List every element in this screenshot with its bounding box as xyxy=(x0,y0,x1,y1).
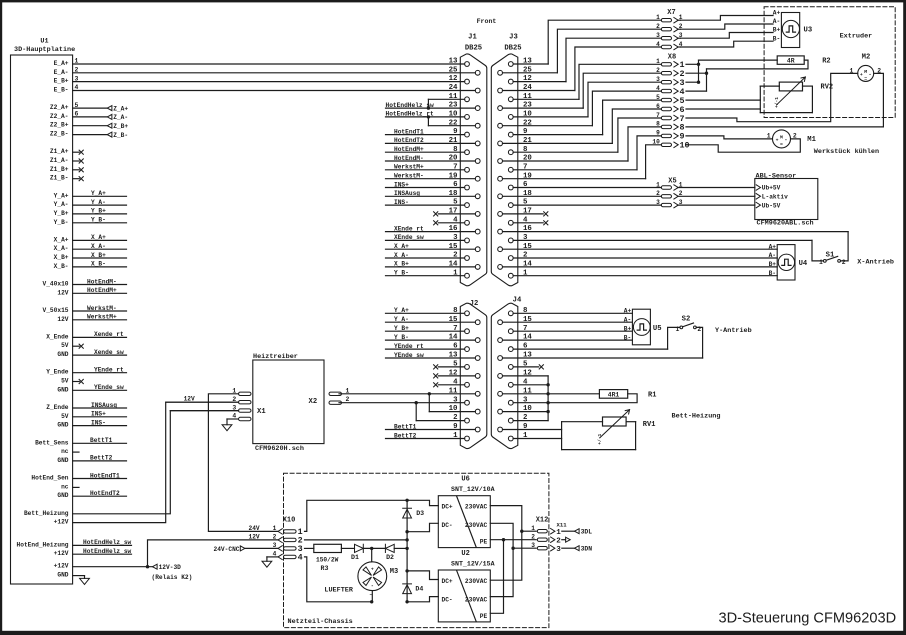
wire L to X12 pin1 xyxy=(522,530,536,532)
junction N xyxy=(511,547,514,550)
svg-text:B+: B+ xyxy=(769,261,777,268)
thermistor RV2 xyxy=(760,77,833,113)
wire X7 pin1 to U3 xyxy=(681,16,774,21)
stepper motor U3 xyxy=(773,10,812,48)
svg-text:X_A-: X_A- xyxy=(54,245,69,252)
net stub HotEndT1 at J1 xyxy=(386,128,465,135)
J2 pin circles and numbers xyxy=(449,307,480,441)
connector X8 pin6 xyxy=(656,103,684,115)
net stub Y_B+ xyxy=(73,208,127,215)
svg-text:+12V: +12V xyxy=(54,519,69,526)
svg-text:CFM9620ABL.sch: CFM9620ABL.sch xyxy=(757,220,814,228)
fan motor M3 xyxy=(358,562,398,591)
svg-text:+: + xyxy=(371,568,374,573)
svg-text:Z1_B-: Z1_B- xyxy=(50,175,69,182)
wire J3 to U4 phase 2 xyxy=(513,257,777,259)
connector X12 pin2 xyxy=(531,534,547,542)
connector X10 pin3 xyxy=(273,542,303,554)
wire J4 tie pins 12-2 xyxy=(503,376,549,421)
wire J2 pin2 xyxy=(416,420,464,422)
net stub WerkstM+ xyxy=(73,314,127,321)
svg-text:GND: GND xyxy=(57,492,68,499)
svg-text:=: = xyxy=(780,142,783,147)
wire X1 pin3 stub xyxy=(170,410,238,412)
wire X2 pin2 to J2 pin3 xyxy=(339,402,465,404)
svg-text:Y_A+: Y_A+ xyxy=(394,307,409,314)
wire J2 pin10 xyxy=(429,411,475,413)
label Bett-Heizung xyxy=(672,412,721,420)
svg-text:A-: A- xyxy=(624,316,631,323)
connector X8 pin9 xyxy=(656,130,684,142)
net stub YEnde_rt xyxy=(73,367,127,374)
wire 12V up to X10 pin2 xyxy=(148,540,278,567)
X1 pin 1 pad xyxy=(232,388,251,396)
svg-text:GND: GND xyxy=(57,422,68,429)
connector X11 pin1 xyxy=(551,529,562,537)
svg-text:1: 1 xyxy=(556,529,561,537)
power supply U2 SNT_12V/15A xyxy=(438,550,494,622)
svg-text:B+: B+ xyxy=(624,325,632,332)
net stub BettT1 at J2 xyxy=(386,423,476,430)
svg-text:HotEnd_Heizung: HotEnd_Heizung xyxy=(17,541,69,548)
no-connect J4 pin5 xyxy=(513,365,543,369)
svg-text:DC-: DC- xyxy=(442,596,453,603)
connector J2 DB15 body xyxy=(460,300,487,448)
svg-text:4: 4 xyxy=(298,553,303,563)
connector X12 pin3 xyxy=(531,542,547,550)
net stub Y_B+ at J2 xyxy=(386,325,465,332)
wire J3 pin16 to S1 pin2 xyxy=(503,232,849,261)
svg-text:12V-3D: 12V-3D xyxy=(159,564,182,571)
stepper motor U5 xyxy=(624,308,662,345)
net stub HotEndHelz_rt at J1 pin10 xyxy=(386,111,465,118)
junction X8 pin3 xyxy=(697,81,700,84)
svg-text:1: 1 xyxy=(273,525,277,532)
no-connect 5V stub xyxy=(73,379,84,383)
junction PE xyxy=(502,538,505,541)
svg-text:Y_A-: Y_A- xyxy=(394,316,409,323)
net stub WerkstM- at J1 xyxy=(386,173,476,180)
svg-text:U5: U5 xyxy=(653,325,662,333)
connector X5 pin3 xyxy=(656,199,755,208)
svg-text:X_B+: X_B+ xyxy=(394,261,409,268)
svg-text:Y_A-: Y_A- xyxy=(54,201,69,208)
svg-text:BettT1: BettT1 xyxy=(394,423,417,430)
wire J3 to X8 pin2 xyxy=(503,73,662,108)
svg-text:3: 3 xyxy=(531,542,535,549)
junction J2 pin11 xyxy=(428,392,431,395)
junction 12V rail a xyxy=(405,538,408,541)
net flag Z_A- xyxy=(73,114,128,121)
svg-text:XEnde_rt: XEnde_rt xyxy=(394,225,424,232)
svg-text:HotEndHelz_sw: HotEndHelz_sw xyxy=(83,539,132,546)
wire E pin3 U1 to J1 xyxy=(73,81,465,83)
svg-text:Y_A+: Y_A+ xyxy=(91,190,106,197)
svg-text:R2: R2 xyxy=(822,57,830,65)
svg-text:INS-: INS- xyxy=(91,419,106,426)
wire tie J2 pin3-pin2 xyxy=(415,403,417,421)
label Relais K2 xyxy=(152,574,193,581)
terminal PE arrow xyxy=(562,537,570,542)
connector X8 pin4 xyxy=(656,85,684,97)
svg-text:X_A+: X_A+ xyxy=(394,243,409,250)
wire J3 to X7 pin4 xyxy=(503,47,662,91)
X1 pin 2 pad xyxy=(232,396,251,404)
wire PE net xyxy=(490,539,536,541)
wire J3 pin3 to S1 pin1 xyxy=(513,240,823,261)
svg-text:X12: X12 xyxy=(536,516,549,524)
no-connect Z1 pin xyxy=(73,177,84,181)
wire E pin2 U1 to J1 xyxy=(73,72,476,74)
svg-text:A-: A- xyxy=(769,252,776,259)
net stub WerkstM- xyxy=(73,305,127,312)
svg-text:12V: 12V xyxy=(249,533,260,540)
svg-text:230VAC: 230VAC xyxy=(465,578,488,585)
svg-text:Y_A-: Y_A- xyxy=(91,199,106,206)
svg-text:2: 2 xyxy=(556,537,561,545)
net stub INSAusg xyxy=(73,402,127,409)
wire J3 to U4 phase 3 xyxy=(503,266,778,268)
svg-text:X7: X7 xyxy=(667,9,675,17)
svg-text:D4: D4 xyxy=(415,586,423,593)
X1 pin 3 pad xyxy=(232,404,251,412)
svg-text:X_A-: X_A- xyxy=(91,243,106,250)
junction X8 pin1 xyxy=(697,63,700,66)
svg-text:INSAusg: INSAusg xyxy=(91,402,117,409)
svg-text:Z2_A-: Z2_A- xyxy=(50,113,69,120)
svg-text:+: + xyxy=(776,139,779,144)
svg-text:5V: 5V xyxy=(61,413,69,420)
svg-text:E_B-: E_B- xyxy=(54,87,69,94)
net stub INS- at J1 xyxy=(386,199,465,206)
svg-text:Y_A+: Y_A+ xyxy=(54,192,69,199)
wire tie pins2-4 xyxy=(706,69,708,91)
svg-text:J2: J2 xyxy=(470,300,479,308)
wire X10 pin4 down xyxy=(305,557,372,602)
net flag Z_A+ xyxy=(73,105,129,112)
svg-text:X_B-: X_B- xyxy=(54,263,69,270)
svg-text:230VAC: 230VAC xyxy=(465,596,488,603)
connector X7 pin2 xyxy=(656,23,683,32)
wire X10 pin1 to DC+ rail xyxy=(305,500,408,531)
connector J1 DB25 body xyxy=(460,34,487,286)
svg-text:J1: J1 xyxy=(468,34,477,42)
svg-text:B+: B+ xyxy=(773,27,781,34)
net stub XEnde_sw at J1 xyxy=(386,234,465,241)
wire X2 pin1 to J2 pin11 xyxy=(339,393,475,395)
ground X1 pin4 xyxy=(222,419,238,431)
svg-text:WerkstM+: WerkstM+ xyxy=(87,314,117,321)
svg-text:S2: S2 xyxy=(682,315,691,323)
U1 pin numbers 1-6 xyxy=(75,58,79,118)
net stub HotEndHelz_sw xyxy=(73,548,132,555)
svg-text:GND: GND xyxy=(57,386,68,393)
svg-text:U1: U1 xyxy=(40,38,48,46)
svg-text:+12V: +12V xyxy=(54,563,69,570)
svg-text:YEnde_sw: YEnde_sw xyxy=(94,384,124,391)
net flag 24V-CNC xyxy=(214,546,278,553)
connector J3 DB25 body xyxy=(491,34,521,286)
svg-text:+/-1: +/-1 xyxy=(774,97,780,108)
junction J4 tie xyxy=(546,401,549,404)
no-connect Z1 pin xyxy=(73,150,84,154)
svg-text:9: 9 xyxy=(656,130,660,137)
svg-text:B-: B- xyxy=(624,334,631,341)
wire J4 to U5 phase 2 xyxy=(503,321,633,323)
svg-text:24V: 24V xyxy=(249,525,260,532)
wire J4 to U5 phase 4 xyxy=(503,339,633,341)
junction J4 tie xyxy=(546,410,549,413)
svg-text:Werkstück kühlen: Werkstück kühlen xyxy=(814,148,879,156)
svg-text:CFM9620H.sch: CFM9620H.sch xyxy=(255,445,304,453)
wire J4 pin9 to RV1 xyxy=(503,429,562,431)
label Werkstueck kuehlen xyxy=(814,148,879,156)
wire J3 to X8 pin10 xyxy=(503,145,662,179)
svg-text:Heiztreiber: Heiztreiber xyxy=(253,353,298,361)
svg-text:M: M xyxy=(780,134,783,140)
dashed box Netzteil-Chassis xyxy=(284,473,549,627)
no-connect J2 pin xyxy=(434,383,465,387)
svg-text:B-: B- xyxy=(769,270,776,277)
diode D4 xyxy=(403,584,424,594)
wire J4 to U5 phase 1 xyxy=(513,312,632,314)
net stub Y_A+ xyxy=(73,190,127,197)
junction J2 pin3 xyxy=(415,401,418,404)
wire J3 to X5 pin1 xyxy=(513,187,661,189)
net stub Y_A+ at J2 xyxy=(386,307,465,314)
svg-text:Extruder: Extruder xyxy=(840,33,873,41)
svg-text:DB25: DB25 xyxy=(465,44,482,52)
svg-text:3: 3 xyxy=(556,546,561,554)
wire N net xyxy=(490,523,513,596)
wire X7 pin4 to U3 xyxy=(681,41,774,47)
svg-text:E_A+: E_A+ xyxy=(54,60,69,67)
stepper motor U4 xyxy=(769,243,808,280)
svg-text:M: M xyxy=(864,69,867,75)
svg-text:nc: nc xyxy=(61,483,69,490)
label Y-Antrieb xyxy=(715,327,752,335)
svg-text:HotEndM+: HotEndM+ xyxy=(87,287,117,294)
wire J4 pin1 to RV1 xyxy=(513,438,561,440)
wire PE vertical xyxy=(490,540,503,614)
svg-text:BettT2: BettT2 xyxy=(90,455,113,462)
svg-text:~: ~ xyxy=(370,593,373,599)
wire X8 pin8 to M2 pin2 xyxy=(686,73,883,127)
no-connect J2 pin xyxy=(434,374,476,378)
svg-text:WerkstM+: WerkstM+ xyxy=(394,164,424,171)
svg-text:HotEndHelz_sw: HotEndHelz_sw xyxy=(83,548,132,555)
wire 12V rail vertical xyxy=(406,500,408,602)
svg-text:GND: GND xyxy=(57,572,68,579)
svg-text:HotEndM-: HotEndM- xyxy=(87,278,117,285)
svg-text:X1: X1 xyxy=(257,408,266,416)
svg-text:A-: A- xyxy=(773,18,780,25)
junction DC- U6 xyxy=(405,530,408,533)
connector X5 label xyxy=(668,177,676,185)
svg-text:8: 8 xyxy=(656,121,660,128)
svg-text:10: 10 xyxy=(652,139,660,146)
svg-text:Netzteil-Chassis: Netzteil-Chassis xyxy=(288,618,353,626)
svg-text:J3: J3 xyxy=(509,34,518,42)
svg-text:Xende_rt: Xende_rt xyxy=(94,331,124,338)
wire M3 bottom xyxy=(370,591,373,602)
wire D2 to 12V rail xyxy=(394,547,407,549)
svg-text:Y-Antrieb: Y-Antrieb xyxy=(715,327,752,335)
connector X10 pin4 xyxy=(273,551,303,563)
svg-text:Y_B-: Y_B- xyxy=(394,334,409,341)
svg-text:12V: 12V xyxy=(57,289,68,296)
label LUEFTER xyxy=(324,587,353,595)
wire X8 pin5 to RV2 xyxy=(686,99,760,101)
svg-text:GND: GND xyxy=(57,457,68,464)
diode D3 xyxy=(403,508,424,518)
connector X8 label xyxy=(668,53,676,61)
wire E pin4 U1 to J1 xyxy=(73,90,476,92)
net stub X_A- xyxy=(73,243,127,250)
wire J3 to X5 pin3 xyxy=(513,204,661,206)
wire J1 pin22 tie xyxy=(428,117,475,126)
svg-text:230VAC: 230VAC xyxy=(465,504,488,511)
svg-text:X2: X2 xyxy=(309,398,318,406)
net stub Y_B- at J2 xyxy=(386,334,476,341)
svg-text:3: 3 xyxy=(656,32,660,39)
wire Bett_Heizung to X1 pin3 xyxy=(73,411,239,514)
svg-text:M3: M3 xyxy=(390,568,398,576)
wire +12V to X1 pin2 (12V) xyxy=(73,402,239,522)
switch S1 xyxy=(819,251,846,266)
diode D2 xyxy=(385,544,394,561)
wire E pin1 U1 to J1 xyxy=(73,63,465,65)
wire tie J2 pin11-pin10 xyxy=(428,394,430,412)
net stub XEnde_rt at J1 xyxy=(386,225,476,232)
svg-text:X_B+: X_B+ xyxy=(54,254,69,261)
net stub Xende_rt xyxy=(73,331,127,338)
net stub X_B+ at J1 xyxy=(386,261,476,268)
svg-text:4: 4 xyxy=(656,41,660,48)
svg-text:R3: R3 xyxy=(321,565,329,572)
wire X7 pin2 to U3 xyxy=(681,24,774,29)
wire J3 to X5 pin2 xyxy=(503,195,662,197)
net stub X_A+ at J1 xyxy=(386,243,476,250)
thermistor RV1 xyxy=(562,410,656,450)
no-connect J2 pin xyxy=(434,365,465,369)
net stub HotEndM- xyxy=(73,278,127,285)
svg-text:2: 2 xyxy=(656,67,660,74)
connector X10 label xyxy=(283,516,296,524)
svg-text:YEnde_rt: YEnde_rt xyxy=(94,367,124,374)
svg-text:=: = xyxy=(864,77,867,82)
svg-text:PE: PE xyxy=(480,613,488,620)
connector X8 pin2 xyxy=(656,67,684,79)
wire M3 top xyxy=(371,548,373,561)
net flag 3DN xyxy=(562,546,592,553)
wire X8 pin3 xyxy=(686,81,699,83)
wire X10 pin3 to R3 xyxy=(305,547,314,549)
X2 pin 1 pad xyxy=(329,387,350,395)
svg-text:Bett_Sens: Bett_Sens xyxy=(35,439,69,446)
svg-text:RV1: RV1 xyxy=(643,421,656,429)
svg-text:Y_B-: Y_B- xyxy=(91,217,106,224)
connector X8 pin10 xyxy=(652,139,689,151)
svg-text:4R1: 4R1 xyxy=(608,391,620,398)
svg-text:Y_B-: Y_B- xyxy=(394,270,409,277)
svg-text:GND: GND xyxy=(57,351,68,358)
svg-text:24V-CNC: 24V-CNC xyxy=(214,546,240,553)
svg-text:2: 2 xyxy=(346,396,350,403)
svg-text:nc: nc xyxy=(61,448,69,455)
svg-text:4R: 4R xyxy=(787,58,795,65)
svg-text:-: - xyxy=(784,136,787,143)
svg-text:X_Ende: X_Ende xyxy=(46,333,69,340)
wire U6 DC- jog xyxy=(407,523,438,531)
net stub Y_B- at J1 xyxy=(386,270,465,277)
net stub INS+ xyxy=(73,411,127,418)
connector X7 pin3 xyxy=(656,32,683,41)
junction L xyxy=(520,530,523,533)
svg-text:X_B-: X_B- xyxy=(91,261,106,268)
J1 pin circles and numbers xyxy=(449,58,480,279)
wire R3 to D1 xyxy=(341,547,354,549)
net stub Y_A- xyxy=(73,199,127,206)
svg-text:BettT2: BettT2 xyxy=(394,432,417,439)
svg-text:X_A+: X_A+ xyxy=(91,234,106,241)
svg-text:3: 3 xyxy=(656,199,660,206)
net flag Z_B+ xyxy=(73,123,129,130)
svg-text:DC+: DC+ xyxy=(442,504,453,511)
svg-text:+/-1: +/-1 xyxy=(597,434,603,445)
svg-text:Front: Front xyxy=(477,18,497,25)
wire X8 pin1 xyxy=(686,63,699,65)
net stub BettT2 at J2 xyxy=(386,432,465,439)
svg-text:HotEndM-: HotEndM- xyxy=(394,155,424,162)
svg-text:R1: R1 xyxy=(648,391,656,399)
no-connect 5V stub xyxy=(73,344,84,348)
wire to R2 xyxy=(699,59,778,61)
junction 0V rail xyxy=(405,600,408,603)
wire X7 pin3 to U3 xyxy=(681,33,774,39)
svg-text:HotEndT1: HotEndT1 xyxy=(90,472,120,479)
IC Heiztreiber box xyxy=(253,353,324,453)
wire J3 to U4 phase 1 xyxy=(503,248,778,250)
wire J3 to U4 phase 4 xyxy=(513,275,777,277)
ground U1 GND xyxy=(73,576,90,585)
svg-text:Y_B-: Y_B- xyxy=(54,219,69,226)
svg-text:V_50x15: V_50x15 xyxy=(43,307,69,314)
svg-text:2: 2 xyxy=(273,534,277,541)
wire J3 to X7 pin1 xyxy=(513,20,661,64)
switch S2 xyxy=(675,315,701,332)
label 12V xyxy=(249,533,260,540)
svg-text:A+: A+ xyxy=(773,10,781,17)
svg-text:25: 25 xyxy=(449,66,458,74)
connector X8 pin7 xyxy=(656,112,684,124)
svg-text:Z2_B+: Z2_B+ xyxy=(50,122,69,129)
svg-text:3DL: 3DL xyxy=(581,529,593,536)
svg-text:13: 13 xyxy=(449,58,458,66)
wire X8 pin9 to M1 pin1 xyxy=(686,136,772,139)
wire +12V to relais flag xyxy=(73,566,153,568)
svg-text:HotEndT2: HotEndT2 xyxy=(394,137,424,144)
svg-text:Z2_A+: Z2_A+ xyxy=(50,104,69,111)
svg-text:LUEFTER: LUEFTER xyxy=(324,587,353,595)
svg-text:X-Antrieb: X-Antrieb xyxy=(857,258,894,266)
svg-text:(Relais K2): (Relais K2) xyxy=(152,574,193,581)
svg-text:2: 2 xyxy=(656,23,660,30)
no-connect J3 pin xyxy=(513,221,548,225)
wire R1 return xyxy=(548,394,637,403)
svg-text:Z1_B+: Z1_B+ xyxy=(50,166,69,173)
wire X8 pin4 xyxy=(686,90,707,92)
